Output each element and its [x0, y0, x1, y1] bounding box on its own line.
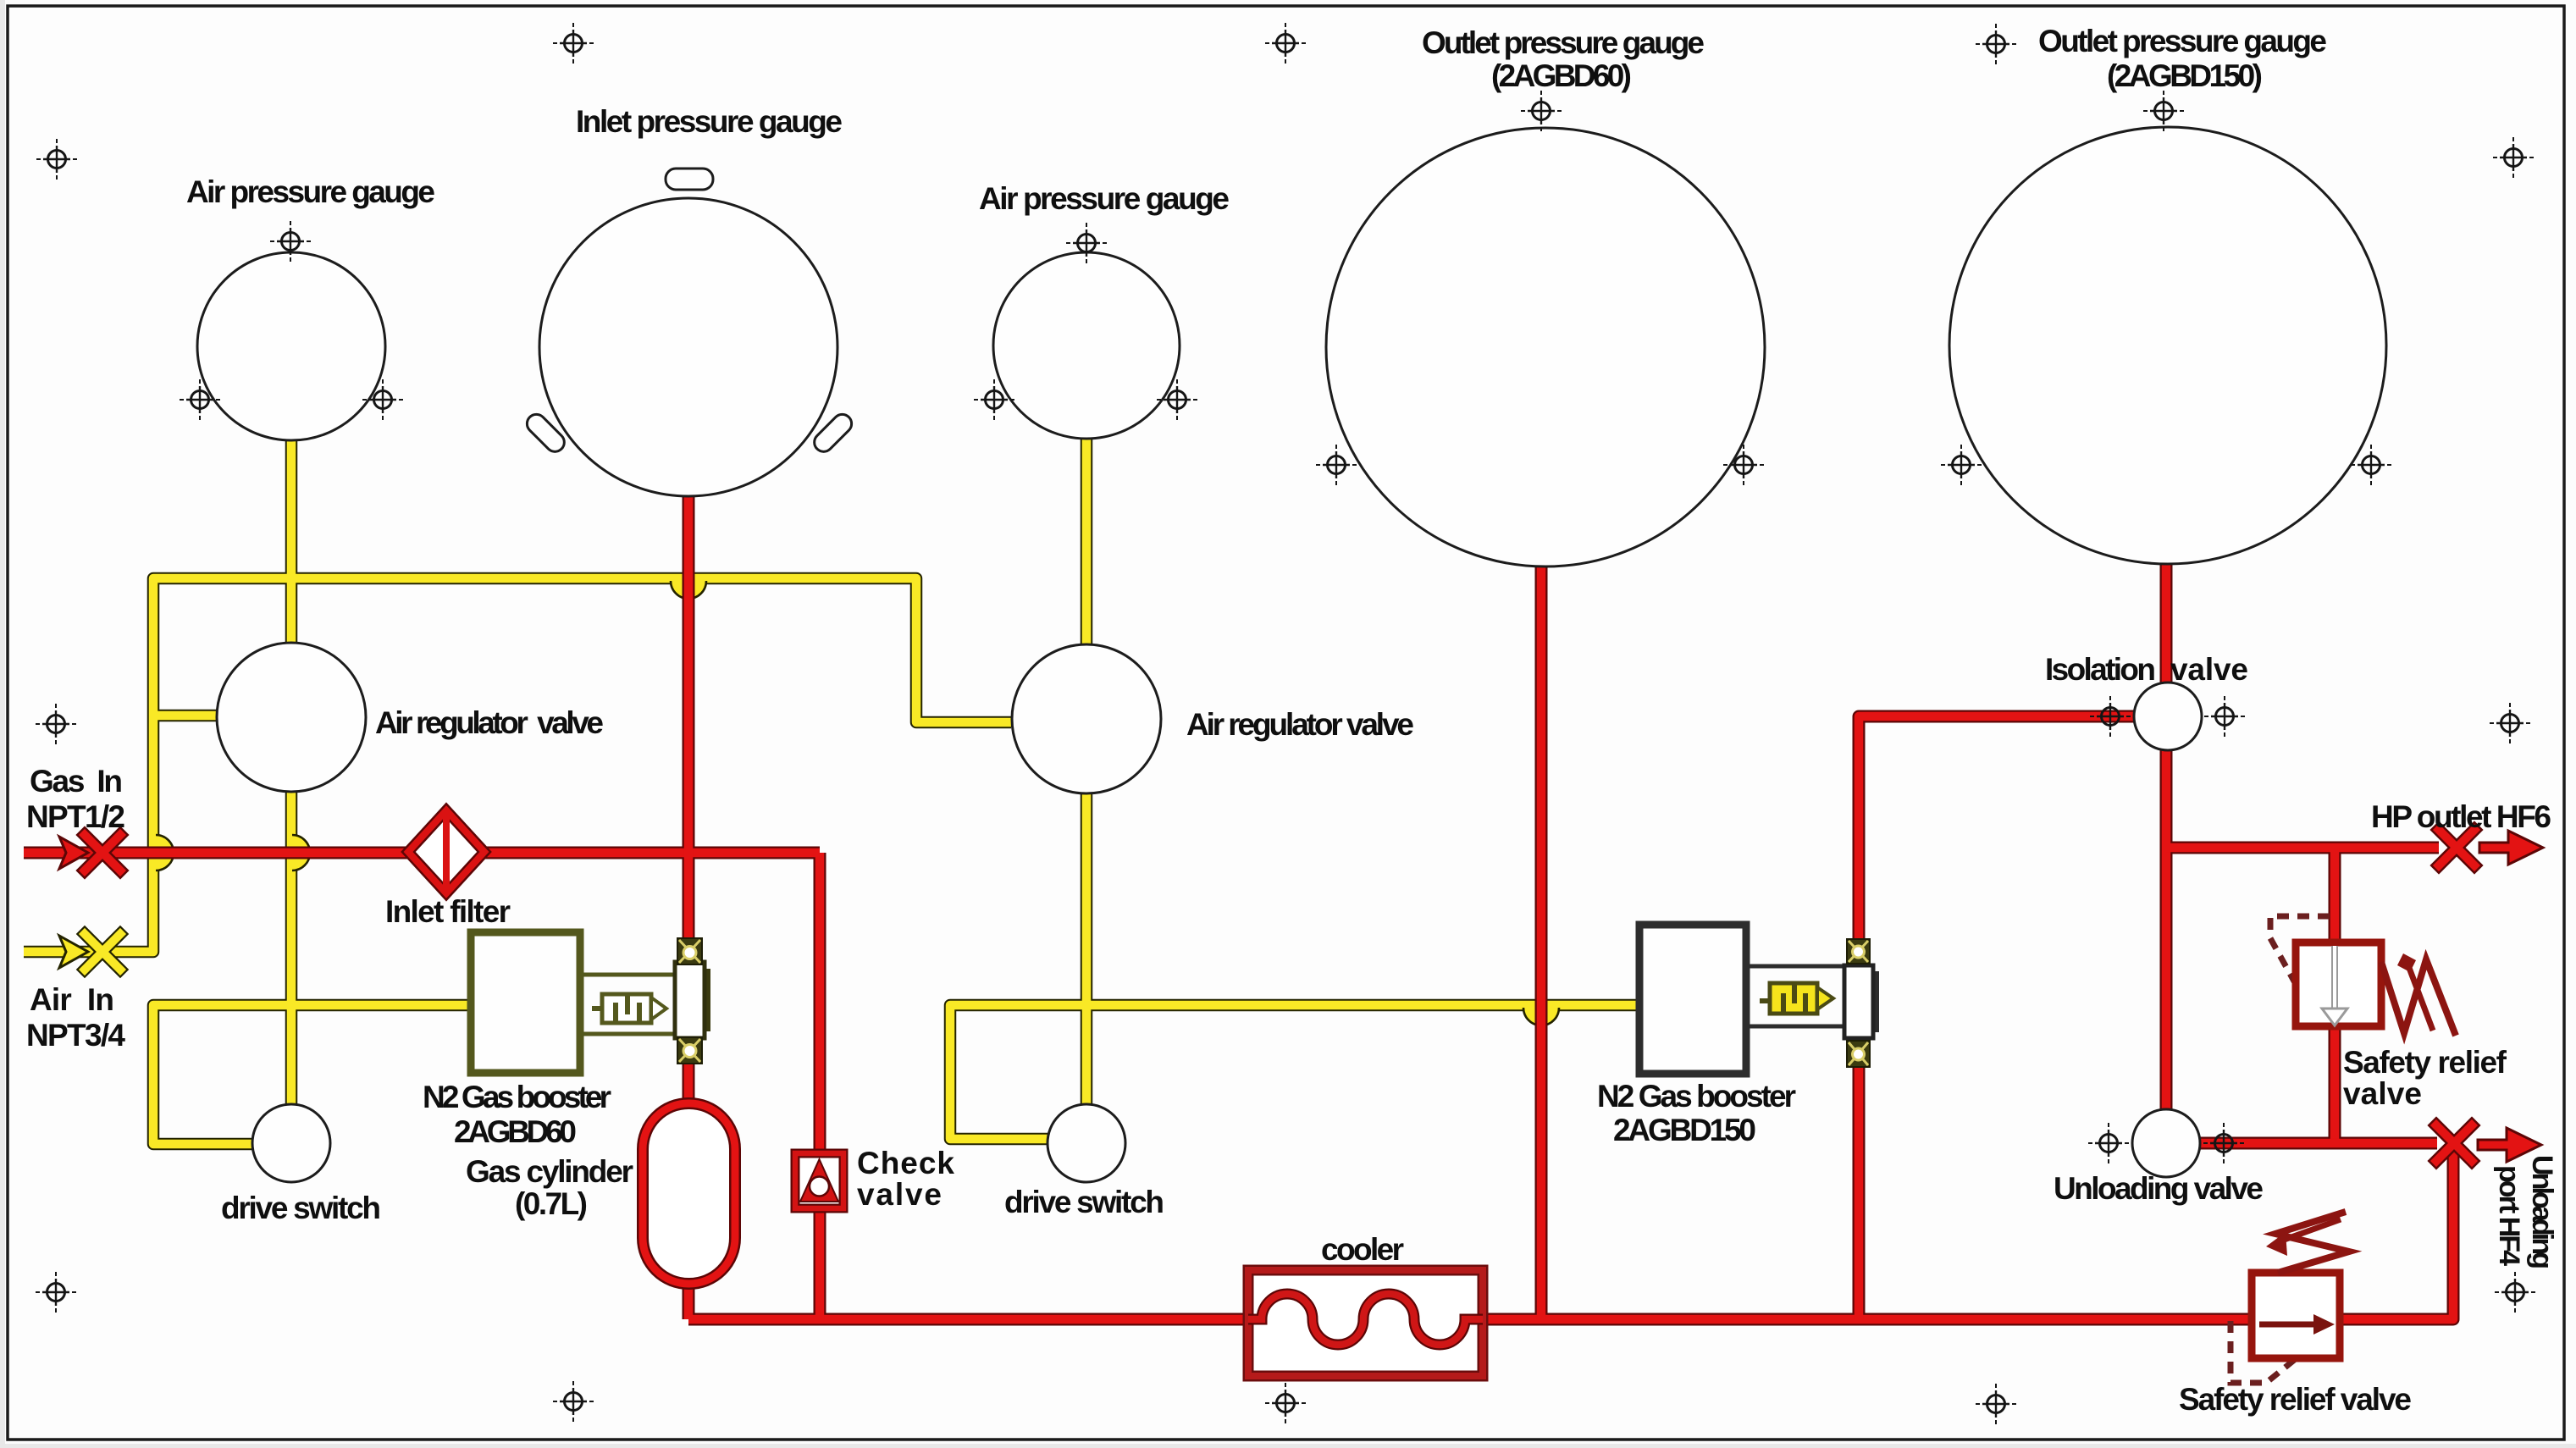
wire: check valve branch down to bottom line (outline) — [814, 853, 826, 1319]
registration mark unloading valve left — [2088, 1123, 2129, 1163]
svg-text:Air pressure gauge: Air pressure gauge — [186, 174, 435, 209]
wire: air regulator valve 1 down to drive switch 1 — [287, 792, 296, 1104]
booster 1 HP barrel — [675, 962, 710, 1038]
unloading valve — [2132, 1109, 2200, 1177]
booster 2 pilot valve — [1760, 983, 1833, 1014]
wire: HP outlet line (outline) — [2166, 842, 2439, 854]
unloading port X fitting — [2436, 1125, 2472, 1161]
svg-text:N2 Gas booster: N2 Gas booster — [1597, 1079, 1796, 1114]
wire: air pressure gauge 1 stem (outline) — [285, 440, 298, 643]
booster 2 top bearing — [1847, 939, 1870, 964]
wire: drive air line to booster 2 with drive switch 2 loop (outline) — [950, 1005, 1639, 1139]
svg-text:Air In: Air In — [30, 982, 114, 1017]
wire: drive air line to booster 1 with drive switch 1 loop — [153, 1005, 471, 1144]
junction hop: regulator 1 riser under gas main line — [292, 835, 310, 870]
wire: air pressure gauge 2 stem — [1082, 437, 1092, 644]
registration mark outlet gauge 150 right — [2351, 445, 2391, 485]
registration mark outlet gauge 60 left — [1316, 445, 1357, 485]
wire: check valve branch down to bottom line — [815, 853, 825, 1319]
booster 2 HP barrel — [1844, 965, 1879, 1038]
wire: Air In supply up left riser to top air manifold and over to regulator 2 — [24, 578, 1011, 952]
junction hop: drive air line under outlet gauge 60 stem — [1523, 1008, 1559, 1025]
registration mark mid-right — [2490, 703, 2530, 743]
inlet filter (diamond) — [408, 810, 484, 893]
HP outlet arrow — [2479, 831, 2543, 865]
svg-text:Unloading: Unloading — [2526, 1155, 2558, 1269]
air regulator valve 1 — [217, 643, 366, 792]
svg-text:Gas cylinder: Gas cylinder — [466, 1154, 633, 1189]
registration mark bottom-left — [36, 1272, 76, 1313]
drive switch 1 — [252, 1104, 330, 1182]
wire: Gas In main line to check valve branch (outline) — [24, 847, 820, 859]
check valve — [795, 1153, 843, 1208]
svg-text:Air regulator valve: Air regulator valve — [1186, 707, 1414, 742]
svg-text:valve: valve — [2343, 1076, 2422, 1111]
wire: booster 2 output riser up to isolation valve (outline) — [1859, 716, 2134, 1319]
registration mark gauge 2 left — [974, 379, 1014, 420]
safety relief valve 2 body — [2252, 1273, 2340, 1358]
wire: Gas In main line to check valve branch — [24, 848, 820, 858]
junction hop: left riser under gas main line — [156, 835, 174, 870]
registration mark above outlet gauge 60 — [1521, 91, 1562, 131]
wire: drive air line to booster 2 with drive switch 2 loop — [950, 1005, 1639, 1139]
registration mark top-right — [2493, 137, 2534, 178]
N2 gas booster 1 (2AGBD60) body — [471, 932, 580, 1073]
registration mark unloading valve right — [2203, 1123, 2244, 1163]
svg-text:Outlet pressure gauge: Outlet pressure gauge — [1422, 25, 1705, 60]
wire: air regulator valve 2 down to drive switch 2 — [1082, 794, 1092, 1104]
Gas In port X fitting — [85, 835, 120, 870]
svg-text:2AGBD150: 2AGBD150 — [1613, 1113, 1756, 1147]
registration mark above gauge 1 — [270, 221, 311, 262]
wire: bottom gas line from cylinder through cooler to unloading riser — [688, 1148, 2453, 1319]
svg-text:Safety relief: Safety relief — [2343, 1045, 2507, 1080]
Air In port X fitting — [85, 934, 120, 970]
wire: branch from left riser to air regulator valve 1 (outline) — [153, 710, 217, 722]
svg-text:Check: Check — [857, 1146, 954, 1180]
svg-text:valve: valve — [2170, 652, 2248, 687]
registration mark top-left — [36, 139, 77, 180]
booster 1 top bearing — [677, 938, 702, 964]
svg-text:Gas In: Gas In — [30, 764, 123, 799]
booster 1 cylinder barrel lines — [580, 975, 677, 1034]
svg-text:Air pressure gauge: Air pressure gauge — [979, 181, 1230, 216]
wire: unloading valve line to unloading port — [2200, 1139, 2437, 1148]
label: unloading port HF4 (rotated) — [2493, 1155, 2558, 1269]
svg-text:Isolation: Isolation — [2045, 652, 2156, 687]
wire: HP outlet line — [2166, 843, 2439, 853]
wire: outlet pressure gauge 2AGBD150 stem through isolation valve to unloading valve — [2162, 565, 2171, 1109]
wire: bottom gas line from cylinder through cooler to unloading riser (outline) — [688, 1148, 2453, 1319]
svg-text:(0.7L): (0.7L) — [515, 1186, 588, 1221]
registration mark gauge 1 left — [180, 379, 220, 420]
registration mark outlet gauge 60 right — [1723, 445, 1764, 485]
safety relief valve 1 flow arrow — [2322, 946, 2347, 1025]
registration mark bottom 1 — [553, 1381, 594, 1422]
cooler — [1248, 1270, 1483, 1376]
wire: branch from left riser to air regulator valve 1 — [153, 711, 217, 721]
junction hop: inlet gauge stem over air manifold — [671, 581, 706, 599]
wire: unloading valve line to unloading port (outline) — [2200, 1137, 2437, 1150]
registration mark top 3 — [1976, 24, 2016, 64]
wire: air regulator valve 2 down to drive switch 2 (outline) — [1081, 794, 1093, 1104]
inlet pressure gauge — [523, 169, 855, 496]
svg-text:drive switch: drive switch — [221, 1191, 381, 1225]
svg-text:(2AGBD150): (2AGBD150) — [2107, 58, 2263, 93]
air pressure gauge 2 — [993, 252, 1180, 439]
registration mark isolation valve right — [2204, 696, 2245, 737]
wire: air pressure gauge 2 stem (outline) — [1081, 437, 1093, 644]
Air In entry arrow — [59, 936, 88, 968]
safety relief valve 2 pilot line (dashed) — [2231, 1321, 2297, 1383]
registration mark bottom 3 — [1976, 1384, 2016, 1424]
HP outlet port X fitting — [2439, 830, 2474, 865]
wire: outlet pressure gauge 2AGBD60 stem down to bottom line — [1537, 567, 1546, 1319]
svg-text:Air regulator valve: Air regulator valve — [375, 705, 604, 740]
safety relief valve 1 spring — [2381, 953, 2456, 1036]
registration mark gauge 2 right — [1157, 379, 1197, 420]
svg-text:2AGBD60: 2AGBD60 — [454, 1114, 577, 1149]
N2 gas booster 2 (2AGBD150) body — [1639, 925, 1746, 1074]
svg-text:NPT1/2: NPT1/2 — [26, 799, 125, 834]
registration mark above gauge 2 — [1066, 223, 1107, 263]
Gas In entry arrow — [59, 837, 88, 869]
wire: gas cylinder bottom stub (outline) — [683, 1270, 695, 1319]
outlet pressure gauge 2AGBD150 — [1949, 127, 2386, 564]
outlet pressure gauge 2AGBD60 — [1326, 128, 1765, 566]
wire: outlet pressure gauge 2AGBD150 stem through isolation valve to unloading valve (outline) — [2160, 565, 2173, 1109]
registration mark bottom 2 — [1265, 1383, 1306, 1423]
air pressure gauge 1 — [197, 252, 385, 440]
svg-text:(2AGBD60): (2AGBD60) — [1491, 58, 1632, 93]
air regulator valve 2 — [1012, 644, 1161, 793]
svg-text:Safety relief valve: Safety relief valve — [2179, 1382, 2412, 1417]
svg-text:Outlet pressure gauge: Outlet pressure gauge — [2038, 24, 2327, 58]
svg-text:Inlet filter: Inlet filter — [385, 894, 511, 929]
svg-text:HP outlet HF6: HP outlet HF6 — [2371, 799, 2551, 834]
wire: Air In supply up left riser to top air manifold and over to regulator 2 (outline) — [24, 578, 1011, 952]
svg-text:NPT3/4: NPT3/4 — [26, 1018, 125, 1053]
safety relief valve 1 pilot line (dashed) — [2270, 916, 2330, 986]
svg-text:port HF4: port HF4 — [2493, 1165, 2525, 1266]
safety relief valve 1 body — [2296, 942, 2381, 1026]
svg-text:drive switch: drive switch — [1004, 1185, 1164, 1219]
isolation valve — [2134, 683, 2202, 750]
registration mark isolation valve left — [2090, 696, 2131, 737]
wire: inlet gauge stem down through booster 1 to gas cylinder (outline) — [683, 496, 695, 1118]
registration mark top 2 — [1265, 23, 1306, 64]
registration mark outlet gauge 150 left — [1941, 445, 1982, 485]
booster 2 bottom bearing — [1847, 1041, 1870, 1067]
unloading port arrow — [2478, 1128, 2541, 1162]
safety relief valve 2 flow arrow — [2259, 1314, 2335, 1335]
wire: drive air line to booster 1 with drive switch 1 loop (outline) — [153, 1005, 471, 1144]
registration mark mid-left — [36, 704, 76, 744]
svg-text:Inlet pressure gauge: Inlet pressure gauge — [576, 104, 843, 139]
safety relief valve 2 spring — [2266, 1212, 2349, 1273]
svg-text:N2 Gas booster: N2 Gas booster — [423, 1080, 611, 1114]
wire: air pressure gauge 1 stem — [287, 440, 296, 643]
wire: safety relief valve 1 branch (outline) — [2329, 848, 2341, 1143]
booster 1 pilot valve — [592, 994, 666, 1023]
wire: safety relief valve 1 branch — [2330, 848, 2340, 1143]
registration mark top 1 — [553, 23, 594, 64]
registration mark bottom-right — [2495, 1272, 2535, 1313]
gas cylinder (0.7L) — [643, 1103, 735, 1284]
svg-text:cooler: cooler — [1321, 1232, 1404, 1267]
wire: air regulator valve 1 down to drive switch 1 (outline) — [285, 792, 298, 1104]
booster 2 cylinder barrel lines — [1746, 966, 1846, 1026]
wire: booster 2 output riser up to isolation valve — [1859, 716, 2134, 1319]
wire: inlet gauge stem down through booster 1 to gas cylinder — [684, 496, 694, 1118]
registration mark gauge 1 right — [362, 379, 403, 420]
svg-text:Unloading valve: Unloading valve — [2054, 1171, 2264, 1206]
wire: gas cylinder bottom stub — [684, 1270, 694, 1319]
wire: outlet pressure gauge 2AGBD60 stem down to bottom line (outline) — [1535, 567, 1548, 1319]
booster 1 bottom bearing — [677, 1037, 702, 1064]
registration mark above outlet gauge 150 — [2143, 91, 2184, 131]
drive switch 2 — [1048, 1104, 1125, 1182]
svg-text:valve: valve — [857, 1177, 942, 1212]
